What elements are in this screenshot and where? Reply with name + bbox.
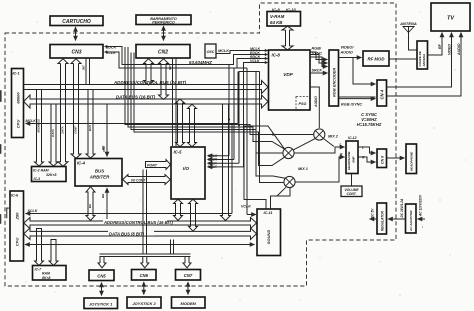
connector CN4 (A/V out)	[377, 80, 387, 106]
svg-text:MODEM: MODEM	[181, 301, 197, 306]
bus ADDRESS/CONTROL BUS (16 BIT) Z80 side	[24, 218, 257, 229]
arrowheads VDP clock inputs	[265, 49, 268, 64]
svg-text:AC ADAPTOR: AC ADAPTOR	[409, 210, 413, 232]
wire drop to CN6	[141, 257, 149, 268]
PCB dashed boundary	[5, 3, 396, 286]
wire CARTUCHO to CN3	[75, 27, 77, 41]
svg-text:ANTENA: ANTENA	[399, 21, 417, 26]
svg-text:PORT: PORT	[147, 163, 158, 167]
bus arrow I/O down to Z80 data bus	[189, 199, 198, 231]
memory IC-2 IC-3 RAM 32Kx8	[32, 167, 67, 182]
bus arrow I/O up to data bus 2	[188, 104, 197, 146]
IC U4 BUS ARBITER	[75, 159, 122, 187]
svg-text:IC-5: IC-5	[174, 150, 183, 155]
memory V-RAM 64KB IC-9 IC-10	[267, 7, 301, 26]
switch CHAVE DE ANTENA (antenna switch)	[417, 41, 428, 69]
svg-text:CARTUCHO: CARTUCHO	[62, 19, 91, 25]
svg-text:IC-1: IC-1	[13, 72, 20, 76]
svg-text:MIX 1: MIX 1	[298, 167, 308, 171]
svg-text:I/O CONT: I/O CONT	[131, 179, 146, 183]
bus arrow PORT into I/O	[146, 160, 171, 170]
wire CN7 to modem	[187, 282, 189, 295]
svg-text:DATA: DATA	[60, 126, 64, 133]
svg-text:BUS: BUS	[95, 169, 104, 174]
peripheral JOYSTICK 1	[84, 298, 118, 309]
wire aux feeds to MIX1b	[244, 72, 286, 183]
wire OSC MCLK to VDP	[216, 51, 268, 54]
IC U12 HEADPHONE AMP	[346, 136, 358, 174]
label RGB/SYNC (VDP output)	[312, 47, 323, 56]
wire MIX1a out to amp L	[294, 147, 344, 153]
wire drop to CN7	[183, 257, 191, 268]
wire I/O clock lines	[208, 155, 230, 157]
IC U6 CPU Z80	[10, 191, 24, 261]
connector CN3 (cartridge slot)	[50, 45, 103, 59]
svg-text:AUDIO: AUDIO	[340, 51, 353, 55]
mixer MIX2	[314, 129, 339, 140]
svg-text:IC-12: IC-12	[348, 136, 357, 140]
IC PSG (inside VDP, dashed)	[296, 97, 310, 110]
svg-text:DATA BUS (8 BIT): DATA BUS (8 BIT)	[109, 231, 145, 236]
svg-text:ADDRESS: ADDRESS	[36, 119, 40, 134]
svg-text:AMP: AMP	[352, 157, 356, 164]
bus arrow V-RAM to VDP (bidirectional hollow)	[282, 26, 293, 50]
svg-text:CN 4: CN 4	[380, 89, 385, 99]
bus arrow arbiter to Z80 address bus (bidirectional)	[86, 187, 95, 221]
bus DATA BUS (16 BIT) 68000 side	[24, 95, 268, 109]
svg-text:BUS: BUS	[88, 125, 92, 131]
svg-text:Z80: Z80	[15, 212, 20, 221]
antenna ANTENA	[399, 21, 417, 50]
label C SYNC V=60HZ H=15.75KHZ	[357, 112, 382, 127]
control VOLUME CONT	[341, 174, 362, 197]
connector CARTUCHO (cartridge)	[50, 16, 103, 26]
bus arrow address bus to arbiter	[86, 90, 95, 159]
wire EDCK from VDP to CN3	[105, 47, 268, 65]
svg-text:DC 16V/1.2A: DC 16V/1.2A	[400, 198, 404, 217]
wire CN5 to joystick 1	[101, 283, 103, 296]
svg-text:AC 110V/220V: AC 110V/220V	[419, 194, 423, 217]
wire VDP RGB to encoder (3 lines)	[310, 52, 328, 60]
svg-text:MCLK: MCLK	[26, 119, 37, 123]
svg-text:CN6: CN6	[140, 273, 149, 278]
svg-text:CN5: CN5	[97, 274, 106, 279]
svg-text:~: ~	[421, 226, 425, 228]
wire amp R to CN8	[358, 157, 376, 162]
wire MIX1b out to amp R	[295, 157, 344, 182]
IC RGB ENCODER	[329, 50, 339, 106]
svg-text:JOYSTICK 2: JOYSTICK 2	[132, 301, 156, 306]
wire CN2 INT lines to I/O	[173, 59, 177, 146]
connector CN8 (phones jack)	[377, 149, 387, 168]
wire PSG audio to MIX2	[310, 87, 319, 128]
svg-text:RF MOD: RF MOD	[368, 57, 385, 62]
svg-text:L: L	[340, 143, 342, 147]
memory IC-7 RAM 8Kx8	[33, 266, 67, 281]
svg-text:CPU: CPU	[16, 120, 21, 129]
svg-text:CONT.: CONT.	[346, 192, 356, 196]
svg-text:DATA BUS (16 BIT): DATA BUS (16 BIT)	[116, 95, 156, 100]
svg-text:DC 5V: DC 5V	[371, 208, 375, 218]
svg-text:ARBITER: ARBITER	[89, 175, 110, 180]
wire encoder video branch to CN4	[353, 58, 376, 85]
oscillator OSC 53.634MHZ	[189, 44, 216, 65]
svg-text:CONT: CONT	[73, 126, 77, 134]
peripheral HEADPHONE	[406, 144, 417, 174]
connector CN5 (joystick port 1)	[89, 270, 114, 281]
wire BARRAMENTO to CN2	[163, 26, 165, 41]
wire VCLK to SOUND	[247, 214, 256, 216]
svg-text:64 KB: 64 KB	[270, 20, 283, 25]
wire CN4 audio to TV	[387, 33, 462, 97]
svg-text:ADDRESS/CONTROL BUS (16 BIT): ADDRESS/CONTROL BUS (16 BIT)	[103, 220, 173, 225]
peripheral MODEM	[172, 297, 206, 308]
svg-text:RGB/: RGB/	[312, 47, 322, 51]
svg-text:V-RAM: V-RAM	[270, 14, 285, 19]
wire CN6 to joystick 2	[143, 282, 145, 295]
svg-text:IC-11: IC-11	[264, 211, 273, 215]
svg-text:8K×8: 8K×8	[42, 276, 51, 280]
wire CN4 video to TV	[387, 33, 452, 88]
wire clock staircase to VDP inputs	[239, 63, 268, 164]
bus arrow CN2 to data bus	[159, 59, 169, 100]
svg-text:HEADPHONE: HEADPHONE	[347, 151, 351, 170]
connector BARRAMENTO PERIFERICO (peripheral bus)	[136, 15, 191, 25]
svg-text:VOL: VOL	[102, 146, 106, 152]
wire adaptor to regulator	[388, 218, 406, 220]
wire control line Z80 to SOUND	[25, 244, 255, 246]
svg-text:SRCF: SRCF	[312, 69, 323, 73]
svg-text:VIDEO: VIDEO	[448, 44, 452, 55]
svg-text:RGB ENCODER: RGB ENCODER	[332, 68, 337, 97]
labels I/O clock inputs MCLK EDCK SCLK VCLK	[208, 154, 218, 169]
wire port rail to connectors	[100, 170, 191, 257]
wire SOUND FM out to MIX1b	[271, 188, 291, 209]
bus arrow I/O up to data bus	[176, 99, 185, 147]
wire AC input	[418, 218, 426, 220]
svg-text:OSC: OSC	[207, 50, 215, 54]
svg-text:REGULATOR: REGULATOR	[380, 210, 384, 231]
mixer MIX1a	[283, 147, 294, 158]
svg-text:CPU: CPU	[15, 238, 20, 247]
bus arrow CN3 to arbiter (long)	[71, 59, 81, 159]
power AC ADAPTOR	[406, 204, 417, 233]
IC U1 CPU 68000	[12, 69, 24, 138]
svg-text:IC-3: IC-3	[34, 177, 41, 181]
wire encoder RGB/SYNC to CN4	[339, 97, 376, 99]
svg-text:PSG: PSG	[298, 102, 306, 106]
wire SCLK to Z80	[26, 213, 233, 215]
svg-text:MIX 2: MIX 2	[328, 135, 339, 139]
wire VDP SRCF to encoder	[310, 72, 328, 74]
svg-text:AUDIO: AUDIO	[457, 43, 461, 56]
svg-text:MCLK: MCLK	[218, 49, 229, 53]
IC U8 VDP (video display processor)	[269, 50, 311, 110]
wire BR arbiter lower	[106, 188, 108, 221]
bus DATA BUS (8 BIT) Z80 side	[24, 228, 257, 240]
svg-text:32K×8: 32K×8	[46, 173, 56, 177]
label VIDEO/AUDIO	[340, 46, 355, 55]
wire cartridge audio feeds to mixers	[125, 47, 314, 135]
bus arrow 68000 data bus down to Z80 address bus	[221, 104, 231, 221]
wire CN8 to headphone	[387, 157, 405, 159]
svg-text:CN7: CN7	[184, 273, 193, 278]
wire antenna switch to TV RF	[428, 33, 443, 56]
svg-text:AUDIO: AUDIO	[314, 96, 318, 108]
svg-text:I/O: I/O	[183, 166, 190, 171]
wire BR to arbiter	[106, 104, 108, 157]
wire drop to CN5	[98, 257, 106, 268]
bus arrow data bus to RAM	[49, 104, 58, 166]
connector CN2 (expansion slot)	[136, 45, 190, 59]
bus arrow I/O CONT between arbiter and I/O (bidirectional)	[123, 175, 171, 185]
connector CN7 (EXT port)	[176, 270, 201, 281]
wire DC 5V out	[370, 218, 378, 220]
wire RF MOD to antenna switch	[389, 58, 417, 60]
bus ADDRESS/CONTROL BUS (24 BIT) 68000 side	[24, 80, 269, 94]
svg-text:RF: RF	[438, 43, 442, 49]
svg-text:JOYSTICK 1: JOYSTICK 1	[89, 302, 113, 307]
svg-text:IC-2 RAM: IC-2 RAM	[33, 169, 49, 173]
svg-text:IC-4: IC-4	[77, 161, 86, 166]
svg-text:ANTENA: ANTENA	[422, 54, 426, 68]
bus arrow Z80 address bus to sound RAM	[35, 229, 44, 266]
svg-text:DATA: DATA	[51, 129, 55, 136]
junction dots	[228, 118, 230, 120]
svg-text:CN3: CN3	[71, 50, 81, 56]
IC U5 I/O controller	[171, 147, 205, 199]
wire amp L to CN8	[358, 147, 376, 153]
wire MIX2 legs	[294, 138, 316, 149]
connector CN6 (joystick port 2)	[132, 270, 157, 281]
svg-text:68000: 68000	[16, 92, 21, 104]
svg-text:VIDEO/: VIDEO/	[341, 46, 355, 50]
svg-text:IC-6: IC-6	[11, 194, 19, 198]
mixer MIX1b	[284, 167, 308, 188]
svg-text:RGB /SYNC: RGB /SYNC	[341, 103, 362, 107]
bus arrow CN2 to address bus	[144, 59, 154, 85]
svg-text:VCLK: VCLK	[241, 205, 251, 209]
svg-text:CN2: CN2	[158, 50, 168, 56]
wire VCLK from VDP to CN3	[105, 52, 268, 68]
bus arrow I/O down to Z80 address bus	[174, 199, 183, 220]
svg-text:SOUND: SOUND	[266, 230, 271, 245]
peripheral JOYSTICK 2	[127, 297, 161, 308]
scan artifact marks	[0, 90, 9, 224]
IC REGULATOR	[377, 203, 387, 234]
bus arrow CN3 to work RAM (long)	[58, 59, 68, 167]
IC U11 SOUND (FM)	[257, 209, 281, 256]
wire encoder to RF MOD	[339, 57, 362, 59]
bus arrow Z80 data bus to sound RAM	[49, 240, 58, 266]
svg-text:H=15.75KHZ: H=15.75KHZ	[357, 122, 382, 127]
svg-text:HEADPHONE: HEADPHONE	[410, 151, 414, 171]
svg-text:IC-8: IC-8	[272, 53, 281, 58]
wire CN3 INT lines	[86, 59, 90, 84]
bus arrow address bus to RAM	[35, 90, 44, 167]
svg-text:CN 8: CN 8	[380, 156, 384, 164]
TV set	[431, 3, 470, 31]
IC RF MOD (RF modulator)	[363, 51, 389, 66]
svg-text:SCLK: SCLK	[28, 209, 38, 213]
wire MCLK to CPU	[26, 123, 239, 125]
svg-text:VDP: VDP	[283, 72, 293, 77]
wire SOUND FM out to MIX1a	[244, 126, 285, 209]
svg-text:PERIFÉRICO: PERIFÉRICO	[152, 20, 175, 25]
